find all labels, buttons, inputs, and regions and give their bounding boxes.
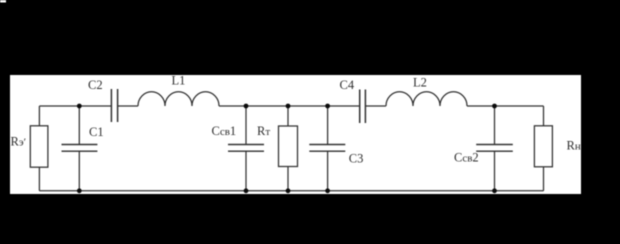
wire Rт bottom lead	[287, 167, 289, 191]
junction bottom C3 node	[325, 188, 330, 193]
svg-text:Rэ′: Rэ′	[11, 135, 26, 149]
junction top Rт node	[286, 104, 291, 109]
junction bottom Rт node	[286, 188, 291, 193]
junction top C3 node	[325, 104, 330, 109]
wire Cсв2 bottom lead	[494, 151, 496, 191]
svg-text:L1: L1	[172, 74, 186, 88]
svg-text:C2: C2	[88, 78, 103, 92]
capacitor Cсв2	[476, 145, 513, 152]
wire Rэ' top lead	[38, 106, 40, 126]
junction top Cсв1 node	[244, 104, 249, 109]
svg-text:Cсв1: Cсв1	[212, 124, 237, 138]
svg-text:Cсв2: Cсв2	[454, 151, 479, 165]
wire Rэ' bottom lead	[38, 167, 40, 191]
svg-text:Rн: Rн	[567, 139, 581, 153]
junction bottom Cсв1 node	[244, 188, 249, 193]
svg-text:Rт: Rт	[257, 124, 270, 138]
svg-text:L2: L2	[413, 76, 427, 90]
wire C3 top lead	[327, 106, 329, 145]
svg-text:C4: C4	[340, 78, 355, 92]
resistor Rн	[534, 126, 552, 167]
wire Rн top lead	[543, 106, 545, 126]
inductor L2	[386, 92, 467, 106]
junction bottom Cсв2 node	[492, 188, 497, 193]
white notch top-left	[0, 0, 6, 3]
wire C3 bottom lead	[327, 151, 329, 191]
wire top bus left segment	[39, 105, 111, 107]
capacitor C1	[62, 145, 98, 152]
wire Cсв1 bottom lead	[245, 151, 247, 191]
junction top Cсв2 node	[492, 104, 497, 109]
black mask right	[581, 0, 620, 244]
white schematic panel	[10, 75, 581, 194]
resistor Rт	[279, 126, 298, 167]
junction bottom C1 node	[77, 188, 82, 193]
resistor Rэ'	[30, 126, 48, 167]
wire C1 bottom lead	[78, 151, 80, 191]
wire Cсв2 top lead	[494, 106, 496, 145]
capacitor Cсв1	[228, 145, 264, 152]
wire top bus right segment	[467, 105, 544, 107]
svg-text:C3: C3	[349, 151, 364, 165]
capacitor C2	[111, 89, 117, 122]
wire bottom bus	[39, 190, 543, 192]
wire Rт top lead	[287, 106, 289, 126]
wire Cсв1 top lead	[245, 106, 247, 145]
junction top C1 node	[77, 104, 82, 109]
wire C4 to L2	[365, 105, 386, 107]
wire Rн bottom lead	[543, 167, 545, 191]
inductor L1	[138, 92, 219, 106]
wire C2 to L1	[118, 105, 138, 107]
wire C1 top lead	[78, 106, 80, 145]
svg-text:C1: C1	[89, 125, 104, 139]
capacitor C4	[360, 90, 366, 124]
wire top bus middle segment	[219, 105, 360, 107]
capacitor C3	[309, 145, 345, 152]
